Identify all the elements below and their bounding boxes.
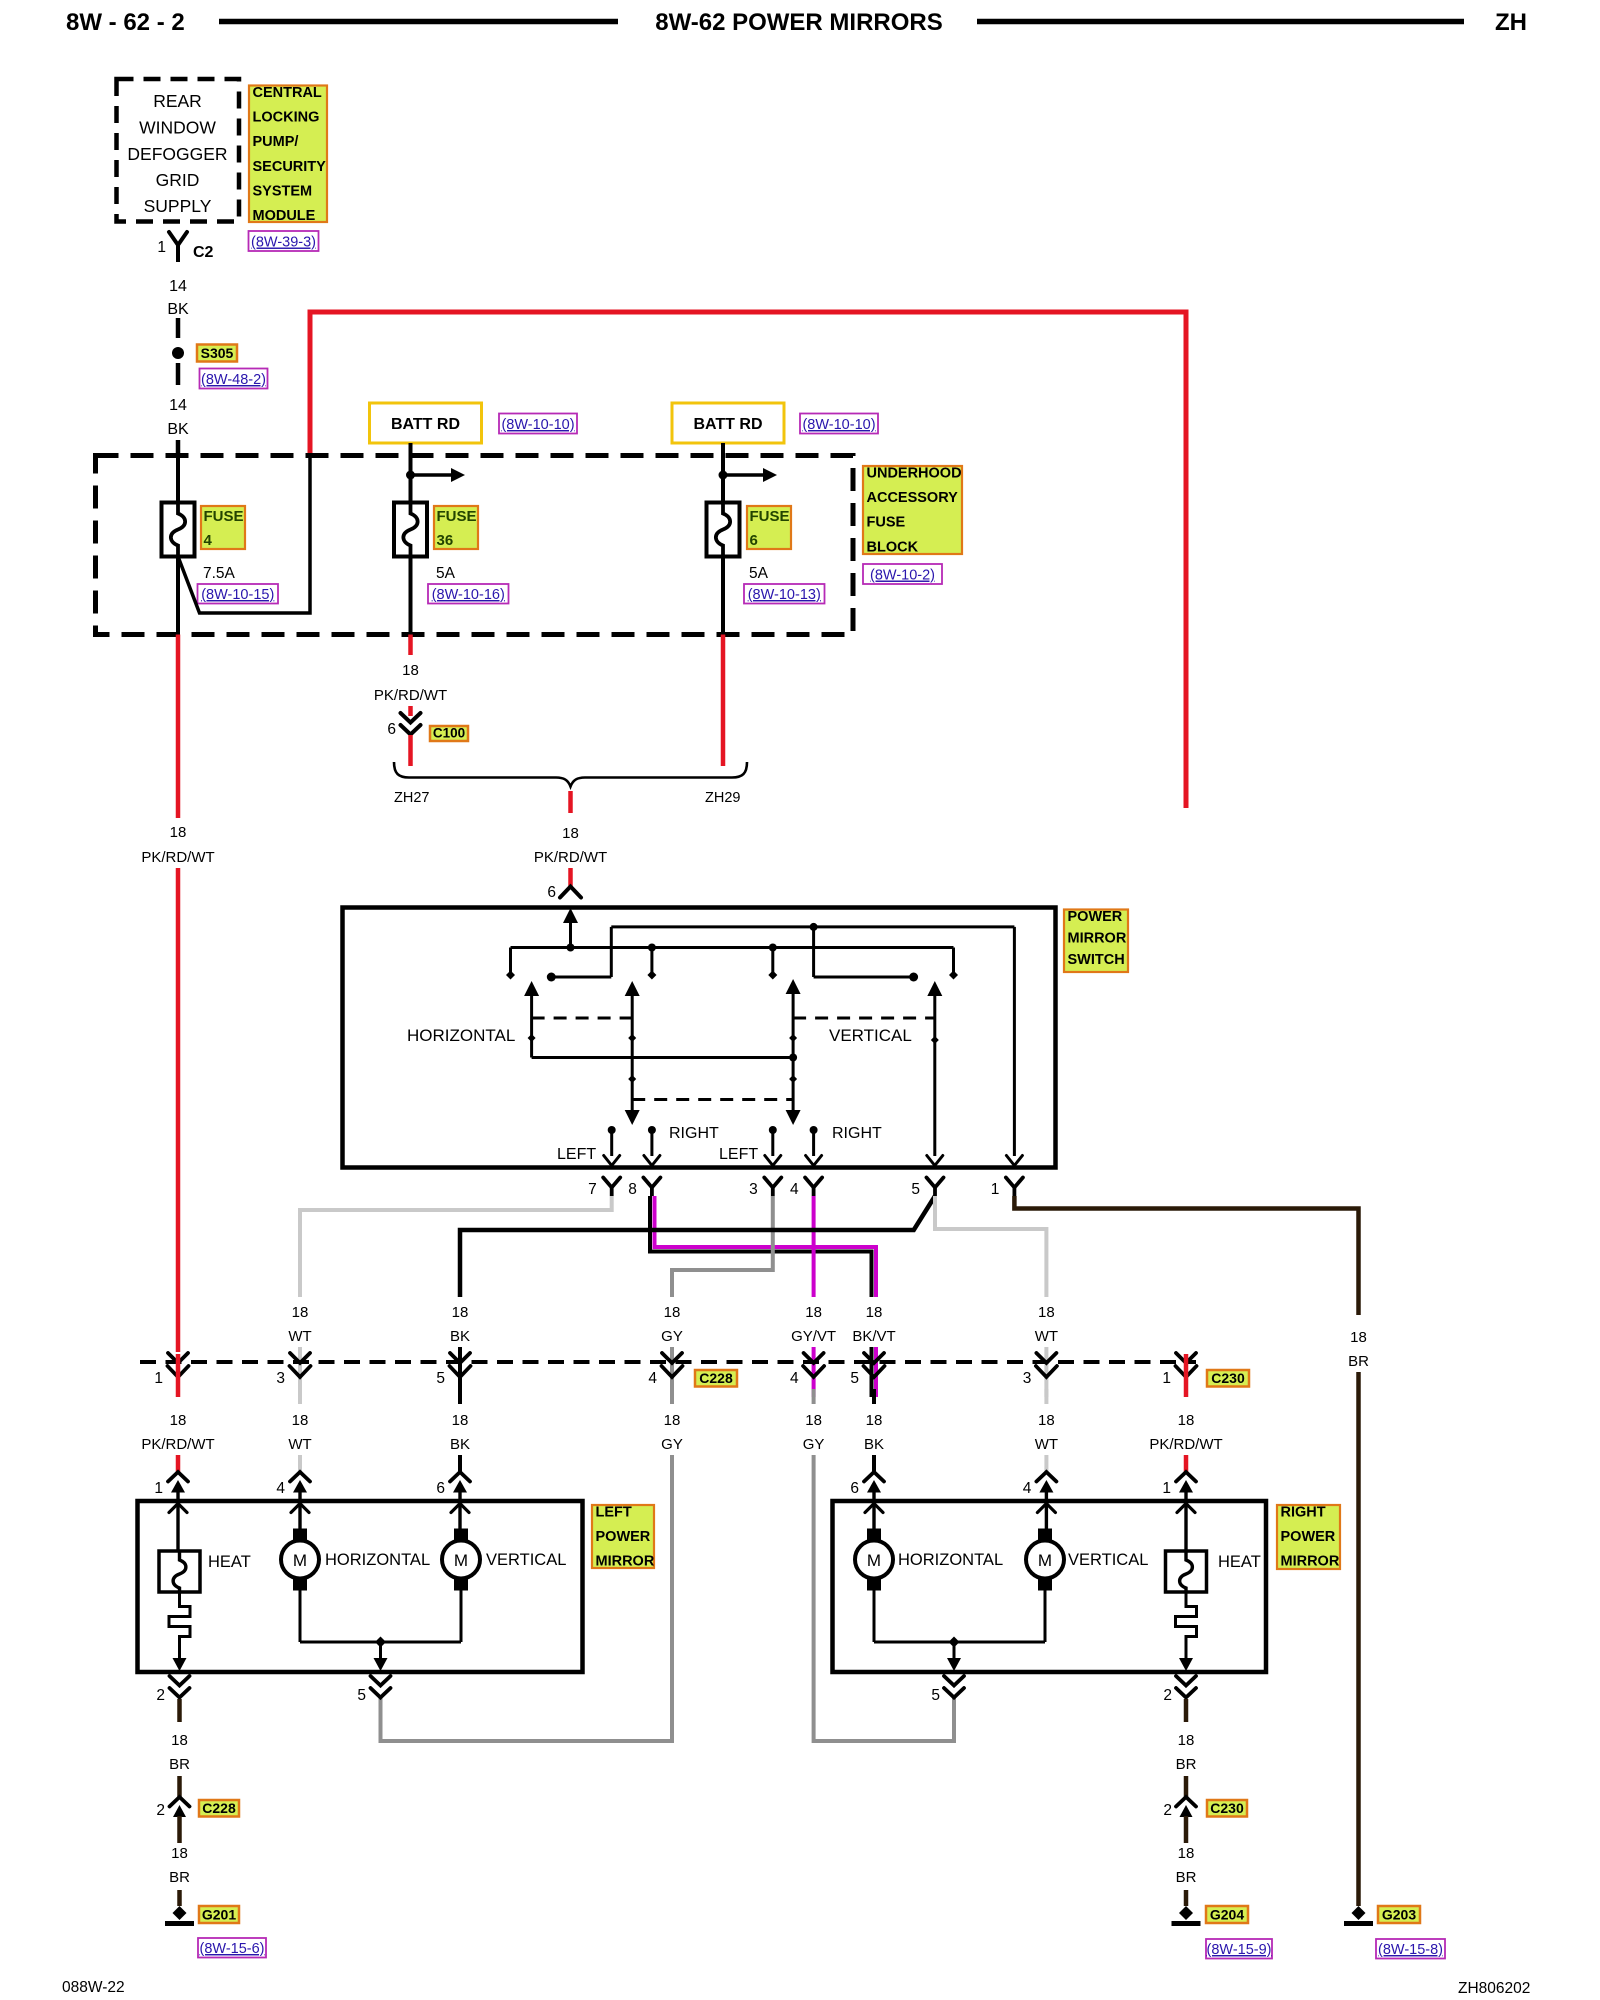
svg-text:M: M: [293, 1551, 307, 1570]
svg-text:7.5A: 7.5A: [203, 565, 236, 582]
contact pair right: [909, 973, 918, 982]
link 8W-15-8: [1376, 1939, 1445, 1959]
svg-text:M: M: [867, 1551, 881, 1570]
switch internal return rail: [611, 925, 1014, 928]
svg-text:4: 4: [1023, 1480, 1032, 1497]
return rail drop to pin 1: [1013, 927, 1016, 1156]
svg-text:G204: G204: [1210, 1907, 1244, 1923]
svg-text:(8W-15-8): (8W-15-8): [1378, 1942, 1443, 1958]
svg-text:18: 18: [866, 1412, 883, 1429]
fuse 4 label: [201, 506, 245, 549]
wire 18 BK/VT from switch pin 8: [650, 1196, 872, 1297]
svg-text:S305: S305: [201, 345, 234, 361]
svg-text:G201: G201: [202, 1907, 236, 1923]
svg-text:SYSTEM: SYSTEM: [253, 183, 313, 199]
svg-text:PK/RD/WT: PK/RD/WT: [534, 849, 607, 866]
svg-text:18: 18: [171, 1845, 188, 1862]
right power mirror label: [1277, 1505, 1340, 1569]
svg-text:HORIZONTAL: HORIZONTAL: [898, 1551, 1003, 1569]
svg-text:VERTICAL: VERTICAL: [1068, 1551, 1148, 1569]
svg-text:14: 14: [169, 397, 187, 414]
right mirror horizontal motor: [867, 1529, 881, 1541]
svg-text:GY/VT: GY/VT: [791, 1328, 836, 1345]
svg-text:MIRROR: MIRROR: [1281, 1554, 1340, 1570]
svg-text:GRID: GRID: [156, 170, 200, 190]
switch wiper 4 vertical-right: [927, 981, 942, 996]
svg-text:(8W-15-6): (8W-15-6): [200, 1941, 265, 1957]
ground G203: [1352, 1906, 1366, 1920]
svg-text:C100: C100: [433, 726, 465, 741]
svg-text:C228: C228: [699, 1370, 733, 1386]
wire 18 BK from switch pin 5: [460, 1196, 935, 1297]
right mirror heater element: [1166, 1551, 1207, 1592]
junction dot fuse 36 feed: [406, 471, 415, 480]
svg-text:ZH: ZH: [1495, 9, 1527, 36]
svg-text:4: 4: [790, 1370, 799, 1387]
svg-text:1: 1: [1162, 1370, 1171, 1387]
left power mirror label: [592, 1505, 654, 1568]
svg-text:2: 2: [1163, 1687, 1172, 1704]
svg-text:CENTRAL: CENTRAL: [253, 85, 322, 101]
svg-text:18: 18: [1038, 1304, 1055, 1321]
wire fuse 36 output: [409, 557, 413, 635]
svg-text:ZH27: ZH27: [394, 790, 429, 806]
switch wiper 2 horizontal-right: [625, 981, 640, 996]
left mirror heater exit arrow: [173, 1658, 187, 1671]
left mirror vertical motor: [454, 1529, 468, 1541]
mechanical link vertical pair: [793, 1017, 935, 1020]
svg-text:(8W-10-10): (8W-10-10): [501, 417, 574, 433]
left mirror horizontal motor: [293, 1529, 307, 1541]
svg-text:PUMP/: PUMP/: [253, 134, 299, 150]
svg-text:HEAT: HEAT: [1218, 1553, 1261, 1571]
svg-text:BLOCK: BLOCK: [867, 539, 919, 555]
link 8W-10-15: [198, 584, 279, 604]
switch pin 3 output stub: [769, 1126, 777, 1134]
svg-text:18: 18: [452, 1304, 469, 1321]
svg-text:5: 5: [911, 1181, 920, 1198]
svg-text:1: 1: [1162, 1480, 1171, 1497]
wire 18 WT into left mirror pin 4: [298, 1389, 302, 1404]
ground G204: [1179, 1906, 1193, 1920]
svg-text:(8W-10-15): (8W-10-15): [201, 587, 274, 603]
ground G201: [173, 1906, 187, 1920]
svg-text:GY: GY: [661, 1436, 683, 1453]
svg-text:18: 18: [292, 1412, 309, 1429]
wire 18 BR below left mirror: [177, 1699, 182, 1722]
svg-text:1: 1: [154, 1370, 163, 1387]
underhood accessory fuse block label: [863, 466, 962, 554]
svg-text:MIRROR: MIRROR: [1068, 931, 1127, 947]
svg-text:C230: C230: [1210, 1800, 1244, 1816]
svg-text:8: 8: [628, 1181, 637, 1198]
svg-text:5: 5: [357, 1687, 366, 1704]
header rule right: [977, 19, 1464, 25]
svg-text:WT: WT: [288, 1328, 311, 1345]
wire 18 GY/VT from switch pin 4: [812, 1196, 816, 1297]
svg-text:5: 5: [850, 1370, 859, 1387]
svg-text:REAR: REAR: [153, 91, 202, 111]
svg-text:3: 3: [1023, 1370, 1032, 1387]
svg-text:BK/VT: BK/VT: [852, 1328, 895, 1345]
svg-text:RIGHT: RIGHT: [669, 1125, 719, 1142]
wire 18 GY from C230 pin 4 to right mirror pin 5: [812, 1389, 816, 1404]
svg-text:C2: C2: [193, 244, 214, 261]
svg-text:18: 18: [171, 1732, 188, 1749]
svg-text:BR: BR: [1176, 1756, 1197, 1773]
svg-text:POWER: POWER: [1281, 1529, 1336, 1545]
svg-text:G203: G203: [1382, 1907, 1416, 1923]
svg-text:BR: BR: [1348, 1353, 1369, 1370]
wire 18 BK into left mirror pin 6: [458, 1389, 462, 1404]
feed rail contact drops: [509, 948, 512, 974]
svg-text:BR: BR: [169, 1756, 190, 1773]
svg-text:VERTICAL: VERTICAL: [829, 1026, 912, 1045]
svg-text:WT: WT: [1035, 1436, 1058, 1453]
svg-text:BK: BK: [167, 421, 189, 438]
svg-text:SECURITY: SECURITY: [253, 159, 327, 175]
svg-text:FUSE: FUSE: [867, 515, 906, 531]
BATT RD box 2: [672, 403, 784, 443]
connector line C228 C230 dashed: [140, 1360, 1196, 1364]
svg-text:18: 18: [1038, 1412, 1055, 1429]
svg-text:RIGHT: RIGHT: [832, 1125, 882, 1142]
fuse 4: [162, 503, 195, 557]
header rule left: [219, 19, 618, 25]
svg-text:SWITCH: SWITCH: [1068, 952, 1125, 968]
svg-text:ACCESSORY: ACCESSORY: [867, 490, 959, 506]
arrow to BATT RD 2: [723, 473, 764, 477]
svg-text:MIRROR: MIRROR: [596, 1554, 655, 1570]
svg-text:6: 6: [850, 1480, 859, 1497]
svg-text:(8W-10-10): (8W-10-10): [802, 417, 875, 433]
svg-text:(8W-39-3): (8W-39-3): [251, 235, 316, 251]
svg-text:5: 5: [436, 1370, 445, 1387]
svg-text:GY: GY: [661, 1328, 683, 1345]
svg-text:36: 36: [437, 532, 454, 549]
return rail contact drops: [610, 927, 613, 977]
junction dot fuse 6 feed: [719, 471, 728, 480]
svg-text:3: 3: [749, 1181, 758, 1198]
power mirror switch label: [1064, 910, 1128, 973]
brace joining ZH27 and ZH29: [394, 762, 747, 787]
power mirror switch box: [343, 908, 1056, 1168]
mechanical link left-right selector: [632, 1098, 793, 1101]
wire into fuse 4: [176, 456, 180, 504]
fuse 6 label: [747, 506, 791, 549]
switch wiper 1 horizontal-left: [524, 981, 539, 996]
svg-text:C228: C228: [202, 1800, 236, 1816]
svg-text:PK/RD/WT: PK/RD/WT: [1149, 1436, 1222, 1453]
svg-text:DEFOGGER: DEFOGGER: [127, 144, 227, 164]
svg-text:18: 18: [1350, 1329, 1367, 1346]
wire 18 GY from switch pin 3: [672, 1196, 773, 1297]
wire 18 BR from switch pin 1: [1014, 1196, 1358, 1315]
right mirror vertical motor: [1038, 1529, 1052, 1541]
wire fuse 4 output to red bus riser: [178, 457, 310, 613]
svg-text:18: 18: [805, 1304, 822, 1321]
svg-text:BATT RD: BATT RD: [391, 416, 460, 433]
svg-text:1: 1: [154, 1480, 163, 1497]
left power mirror box: [138, 1501, 583, 1672]
svg-text:LEFT: LEFT: [557, 1146, 596, 1163]
svg-text:5A: 5A: [749, 565, 769, 582]
BATT RD box 1: [370, 403, 482, 443]
wire 18 PK/RD/WT left drop: [176, 635, 181, 819]
svg-text:3: 3: [276, 1370, 285, 1387]
svg-text:HEAT: HEAT: [208, 1553, 251, 1571]
switch pin 4 output stub: [810, 1126, 818, 1134]
svg-text:FUSE: FUSE: [750, 508, 790, 525]
svg-text:4: 4: [276, 1480, 285, 1497]
wire into fuse 6: [721, 443, 725, 503]
svg-text:ZH806202: ZH806202: [1458, 1980, 1530, 1997]
mechanical link horizontal pair: [532, 1017, 633, 1020]
svg-text:18: 18: [1178, 1412, 1195, 1429]
svg-text:18: 18: [170, 1412, 187, 1429]
wire fuse 6 output: [721, 557, 725, 635]
connector C230 label: [1207, 1370, 1249, 1387]
svg-text:LEFT: LEFT: [596, 1505, 632, 1521]
switch pin 8 output stub: [648, 1126, 656, 1134]
svg-text:HORIZONTAL: HORIZONTAL: [325, 1551, 430, 1569]
svg-text:18: 18: [664, 1412, 681, 1429]
svg-text:BK: BK: [167, 301, 189, 318]
svg-text:RIGHT: RIGHT: [1281, 1505, 1326, 1521]
underhood accessory fuse block dashed box: [96, 456, 854, 635]
svg-text:POWER: POWER: [1068, 909, 1123, 925]
svg-text:PK/RD/WT: PK/RD/WT: [141, 849, 214, 866]
svg-text:HORIZONTAL: HORIZONTAL: [407, 1026, 515, 1045]
svg-text:SUPPLY: SUPPLY: [144, 196, 212, 216]
right mirror heater exit arrow: [1179, 1658, 1193, 1671]
svg-text:6: 6: [750, 532, 758, 549]
svg-text:088W-22: 088W-22: [62, 1979, 125, 1996]
switch pin 6 internal feed arrow: [563, 908, 578, 923]
svg-text:PK/RD/WT: PK/RD/WT: [374, 687, 447, 704]
switch wiper common link: [532, 1056, 794, 1059]
wire into fuse 36: [409, 443, 413, 503]
switch pin 7 output stub: [608, 1126, 616, 1134]
rear window defogger grid supply box: [117, 79, 240, 222]
svg-text:(8W-48-2): (8W-48-2): [201, 372, 266, 388]
svg-text:18: 18: [452, 1412, 469, 1429]
svg-text:18: 18: [805, 1412, 822, 1429]
svg-text:WINDOW: WINDOW: [139, 118, 216, 138]
svg-text:PK/RD/WT: PK/RD/WT: [141, 1436, 214, 1453]
svg-text:8W - 62 - 2: 8W - 62 - 2: [66, 9, 185, 36]
link 8W-10-16: [428, 584, 509, 604]
svg-text:ZH29: ZH29: [705, 790, 740, 806]
svg-text:5A: 5A: [436, 565, 456, 582]
fuse 36: [394, 503, 427, 557]
svg-text:WT: WT: [288, 1436, 311, 1453]
wire 18 WT into right mirror pin 4: [1044, 1389, 1048, 1404]
svg-text:GY: GY: [803, 1436, 825, 1453]
wire 18 PK/RD/WT from fuse 36: [408, 635, 413, 656]
wire fuse 4 output down: [176, 557, 180, 635]
link 8W-15-9: [1206, 1939, 1272, 1959]
contact pair left: [547, 973, 556, 982]
svg-text:18: 18: [562, 825, 579, 842]
svg-text:BR: BR: [1176, 1869, 1197, 1886]
svg-text:1: 1: [991, 1181, 1000, 1198]
wire 18 WT from switch pin 5 to right mirror: [935, 1196, 1046, 1297]
wire 18 PK/RD/WT switch feed: [568, 791, 573, 813]
wire 18 PK/RD/WT from fuse 6 to ZH29: [721, 635, 726, 767]
link 8W-10-10 second: [800, 414, 878, 434]
wire 18 GY from C228 pin 4 to left mirror pin 5: [670, 1389, 674, 1404]
central locking pump / security system module label: [249, 86, 327, 223]
svg-text:2: 2: [1163, 1802, 1172, 1819]
svg-text:6: 6: [436, 1480, 445, 1497]
svg-text:LOCKING: LOCKING: [253, 110, 320, 126]
svg-text:4: 4: [648, 1370, 657, 1387]
link 8W-15-6: [198, 1938, 266, 1958]
wire 18 WT from switch pin 7: [300, 1196, 612, 1297]
wire 18 PK/RD/WT into right mirror pin 1: [1184, 1354, 1189, 1397]
link 8W-39-3: [249, 231, 319, 251]
svg-text:BK: BK: [450, 1436, 470, 1453]
svg-text:UNDERHOOD: UNDERHOOD: [867, 466, 962, 482]
svg-text:(8W-10-2): (8W-10-2): [870, 568, 935, 584]
svg-text:18: 18: [664, 1304, 681, 1321]
svg-text:14: 14: [169, 278, 187, 295]
svg-text:M: M: [454, 1551, 468, 1570]
right power mirror box: [833, 1501, 1267, 1672]
link 8W-10-2: [863, 564, 942, 584]
svg-text:2: 2: [156, 1687, 165, 1704]
right mirror motor commons join: [873, 1590, 876, 1642]
svg-text:5: 5: [931, 1687, 940, 1704]
svg-text:6: 6: [547, 884, 556, 901]
svg-text:2: 2: [156, 1802, 165, 1819]
svg-text:4: 4: [790, 1181, 799, 1198]
wire 14 BK lower: [176, 363, 181, 385]
svg-text:18: 18: [402, 662, 419, 679]
svg-text:7: 7: [588, 1181, 597, 1198]
svg-text:BK: BK: [450, 1328, 470, 1345]
switch internal feed rail: [511, 946, 954, 949]
svg-text:(8W-15-9): (8W-15-9): [1207, 1942, 1272, 1958]
svg-text:1: 1: [157, 239, 166, 256]
connector C228 label: [695, 1370, 737, 1387]
svg-text:WT: WT: [1035, 1328, 1058, 1345]
svg-text:(8W-10-16): (8W-10-16): [432, 587, 505, 603]
svg-text:8W-62 POWER MIRRORS: 8W-62 POWER MIRRORS: [655, 9, 943, 36]
fuse 36 label: [434, 506, 478, 549]
wire 18 BR below right mirror: [1184, 1699, 1189, 1722]
svg-text:6: 6: [387, 721, 396, 738]
switch wiper 3 vertical-left: [786, 979, 801, 994]
svg-text:(8W-10-13): (8W-10-13): [748, 587, 821, 603]
svg-text:18: 18: [1178, 1732, 1195, 1749]
wire 18 PK/RD/WT into left mirror pin 1: [176, 1354, 181, 1397]
wire 18 BK into right mirror pin 6: [872, 1389, 876, 1404]
svg-text:M: M: [1038, 1551, 1052, 1570]
svg-text:BATT RD: BATT RD: [693, 416, 762, 433]
svg-text:MODULE: MODULE: [253, 208, 316, 224]
svg-text:POWER: POWER: [596, 1529, 651, 1545]
svg-text:18: 18: [1178, 1845, 1195, 1862]
wire 18 PK/RD/WT below C100: [408, 735, 413, 766]
wire 18 PK/RD/WT feed bus from fuse 4 to right side: [310, 312, 1186, 808]
link 8W-10-10 first: [499, 414, 577, 434]
svg-text:BR: BR: [169, 1869, 190, 1886]
svg-text:18: 18: [170, 824, 187, 841]
splice S305: [172, 347, 184, 359]
svg-text:LEFT: LEFT: [719, 1146, 758, 1163]
svg-text:FUSE: FUSE: [204, 508, 244, 525]
svg-text:18: 18: [866, 1304, 883, 1321]
svg-text:C230: C230: [1211, 1370, 1245, 1386]
link 8W-10-13: [744, 584, 825, 604]
left mirror motor commons join: [299, 1590, 302, 1642]
left mirror heater element: [159, 1551, 200, 1592]
fuse 6: [707, 503, 740, 557]
link 8W-48-2: [200, 369, 268, 389]
svg-text:4: 4: [204, 532, 213, 549]
svg-text:FUSE: FUSE: [437, 508, 477, 525]
svg-text:18: 18: [292, 1304, 309, 1321]
svg-text:VERTICAL: VERTICAL: [486, 1551, 566, 1569]
svg-text:BK: BK: [864, 1436, 884, 1453]
arrow to BATT RD 1: [411, 473, 453, 477]
